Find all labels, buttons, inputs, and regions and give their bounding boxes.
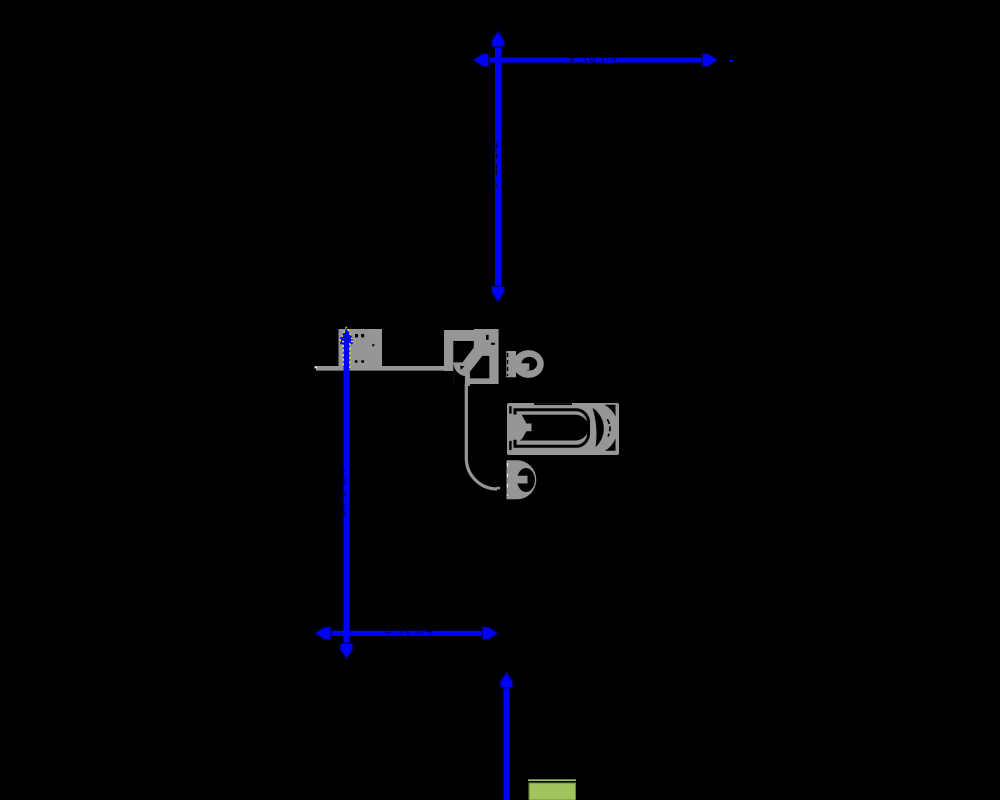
door swing arc: [465, 377, 470, 387]
green table line: [528, 779, 576, 781]
svg-text:9' 10 1/4": 9' 10 1/4": [569, 51, 622, 65]
dimension line A vertical: [492, 31, 505, 302]
svg-text:10' 9 3/4": 10' 9 3/4": [335, 464, 349, 517]
svg-text:5' 11 1/4": 5' 11 1/4": [385, 623, 437, 637]
wall: [316, 366, 446, 371]
stray blue dot: [730, 60, 733, 62]
toilet: [506, 350, 544, 378]
wall endpoint dot: [315, 366, 317, 368]
green table: [529, 783, 576, 800]
yellow selection outline: [340, 327, 353, 368]
dimension line D vertical bottom: [500, 672, 513, 800]
bathtub: [507, 403, 619, 455]
svg-text:8' 11 1/2": 8' 11 1/2": [486, 137, 500, 189]
shower: [444, 329, 499, 384]
sink: [507, 460, 537, 499]
washing machine: [339, 329, 383, 367]
dimension line C horizontal bottom: [315, 627, 498, 640]
dimension line B vertical left: [340, 329, 353, 660]
dimension line H1 horizontal top: [473, 54, 718, 67]
